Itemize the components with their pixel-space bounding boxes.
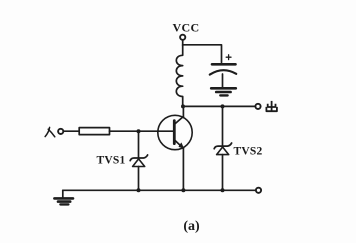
inductor L1 [176, 45, 182, 106]
terminal VCC [180, 35, 185, 40]
wire TVS2 bottom lead [222, 155, 224, 191]
wire TVS1 top lead [138, 131, 140, 157]
wire VCC stub [182, 40, 184, 46]
node collector/coil junction [181, 104, 185, 108]
svg-text:TVS1: TVS1 [97, 155, 126, 167]
node TVS1 top junction [137, 129, 141, 133]
wire bottom rail [63, 189, 256, 191]
node TVS2 bottom junction [221, 188, 225, 192]
node TVS2 top junction [221, 104, 225, 108]
label 入 (input) [45, 127, 55, 136]
node TVS1 bottom junction [137, 188, 141, 192]
ground (capacitor) [211, 88, 236, 95]
wire top output rail [183, 105, 256, 107]
terminal output [255, 104, 260, 109]
terminal input [58, 129, 63, 134]
svg-text:TVS2: TVS2 [234, 146, 263, 158]
TVS diode TVS2 [214, 143, 231, 155]
svg-text:(a): (a) [183, 219, 200, 234]
node emitter bottom junction [181, 188, 185, 192]
terminal bottom right [256, 188, 261, 193]
TVS diode TVS1 [130, 155, 147, 167]
wire TVS2 top lead [222, 106, 224, 145]
wire TVS1 bottom lead [138, 167, 140, 191]
ground (main) [54, 190, 73, 204]
capacitor C1 (polarized) [210, 55, 236, 88]
wire collector to rail [182, 106, 184, 116]
resistor R1 [79, 128, 109, 135]
label 出 (output) [266, 101, 277, 112]
wire resistor to base [110, 130, 174, 132]
wire emitter to bottom rail [182, 148, 184, 190]
wire input to resistor [64, 130, 79, 132]
wire to capacitor top [183, 45, 222, 63]
svg-text:VCC: VCC [173, 20, 200, 34]
transistor Q1 [158, 115, 192, 149]
